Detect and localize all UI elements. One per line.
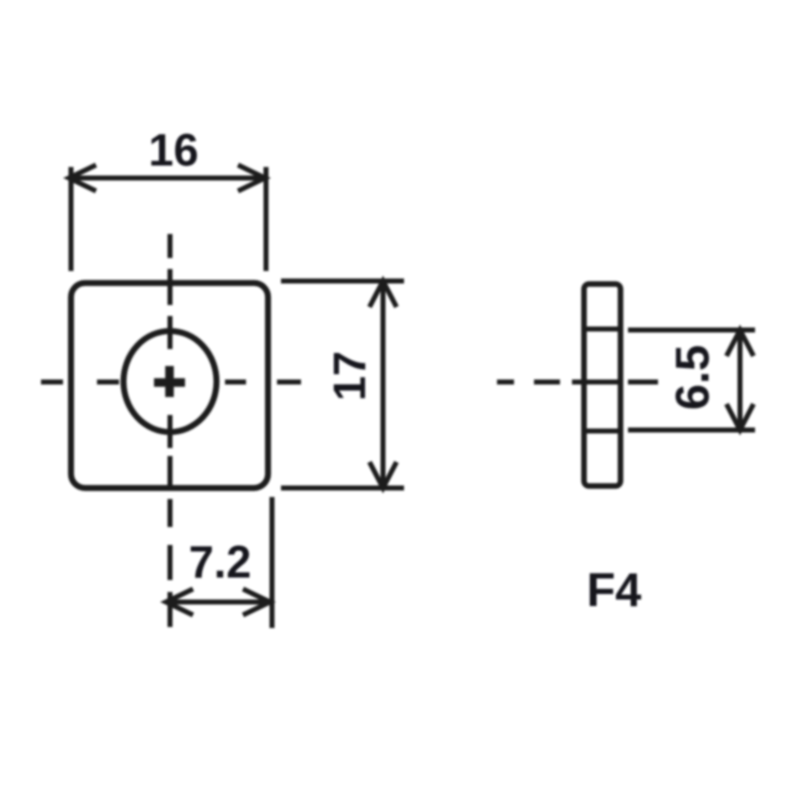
dim 6.5 extension lines [628, 330, 755, 430]
hole circle [124, 331, 217, 432]
svg-text:6.5: 6.5 [666, 345, 719, 410]
dim 17 extension lines [281, 281, 404, 488]
dim 7.2 arrow right [243, 589, 270, 615]
center cross [154, 366, 185, 397]
svg-text:16: 16 [148, 125, 198, 176]
svg-text:7.2: 7.2 [189, 537, 252, 588]
horizontal centerline [41, 380, 301, 385]
dim 17 arrow up [370, 281, 397, 307]
side view body [584, 284, 621, 486]
dim 7.2 line [166, 600, 270, 605]
front view square body [71, 283, 268, 488]
dim 17 arrow down [370, 462, 397, 488]
svg-text:F4: F4 [587, 563, 642, 616]
svg-text:17: 17 [324, 351, 375, 401]
dim 7.2 arrow left [166, 589, 193, 615]
side view hole line top [584, 327, 621, 332]
side view hole line bottom [584, 429, 621, 434]
dim 6.5 line [738, 330, 743, 430]
dim 6.5 arrow up [727, 330, 754, 356]
dim 7.2 extension line [270, 497, 275, 628]
dim 16 arrow left [69, 165, 96, 191]
dim 16 arrow right [238, 165, 265, 191]
dim 6.5 arrow down [727, 404, 754, 430]
dim 16 line [69, 176, 265, 181]
vertical centerline [168, 234, 173, 627]
side view centerline [497, 380, 658, 385]
dim 17 line [381, 281, 386, 488]
dim 16 extension lines [71, 167, 266, 271]
